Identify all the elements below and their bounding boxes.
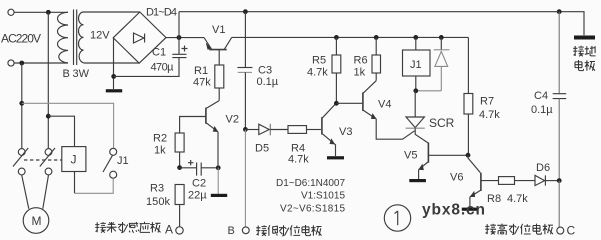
label 接低水位电极	[256, 225, 321, 236]
svg-text:V3: V3	[339, 126, 352, 138]
svg-text:ybx8.cn: ybx8.cn	[422, 202, 485, 219]
label 接来水感应极	[95, 222, 160, 233]
resistor R6	[372, 37, 381, 80]
wire node down to terminal C (gray)	[558, 181, 560, 228]
node N to J1 contact branch	[19, 101, 24, 106]
ground bar V6	[462, 208, 478, 211]
svg-text:4.7k: 4.7k	[307, 67, 328, 79]
resistor R5	[332, 37, 341, 103]
wire V5 base to node	[429, 154, 468, 156]
contactor coil J box	[62, 147, 86, 172]
label 接高水位电极	[485, 224, 553, 235]
transformer core	[74, 10, 77, 66]
svg-text:3W: 3W	[73, 68, 90, 80]
wire V2 base left	[180, 117, 206, 134]
ground bar V2	[211, 194, 227, 197]
wire node down to terminal B (gray)	[244, 129, 246, 227]
svg-text:4.7k: 4.7k	[479, 109, 500, 121]
svg-text:D1~D6:1N4007: D1~D6:1N4007	[276, 178, 345, 189]
svg-text:J: J	[71, 153, 77, 167]
transistor V4 (NPN)	[363, 81, 376, 119]
relay contact J1	[103, 148, 117, 178]
svg-text:22µ: 22µ	[188, 190, 207, 202]
svg-text:SCR: SCR	[429, 116, 455, 130]
ground bar under bridge	[106, 89, 122, 92]
flyback diode (gray)	[416, 50, 450, 91]
svg-text:150k: 150k	[146, 196, 171, 208]
wire C1 minus to ground node	[114, 58, 179, 77]
svg-text:1k: 1k	[354, 67, 366, 79]
svg-text:V6: V6	[450, 172, 463, 184]
bridge inner diode	[134, 33, 145, 43]
capacitor C2 electrolytic	[180, 160, 217, 176]
svg-text:0.1µ: 0.1µ	[257, 76, 279, 88]
svg-text:470µ: 470µ	[151, 62, 175, 74]
svg-text:R8: R8	[487, 193, 501, 205]
node rail J1 coil	[413, 35, 418, 40]
svg-text:J1: J1	[410, 59, 422, 71]
capacitor C1 lead	[178, 38, 180, 55]
wire rail to flyback diode	[440, 37, 442, 49]
wire secondary bottom to bridge	[84, 62, 140, 64]
transistor V1 (PNP S1015)	[204, 37, 232, 49]
wire V6 emitter to ground	[469, 197, 471, 208]
svg-text:4.7k: 4.7k	[507, 193, 528, 205]
switch contact left (in N line)	[13, 148, 28, 175]
wire N down to switch	[21, 63, 23, 148]
switch contact right (in L line)	[40, 148, 55, 175]
node rail R5	[334, 35, 339, 40]
ground bar V3	[327, 156, 344, 159]
svg-text:D1~D4: D1~D4	[146, 7, 177, 19]
node top bus to C3 branch	[243, 9, 248, 14]
node plus junction	[177, 35, 182, 40]
wire switch to motor right	[43, 175, 49, 209]
resistor R4	[288, 126, 321, 134]
node L junction	[46, 10, 51, 15]
svg-text:V1: V1	[212, 24, 225, 36]
node D6 C line	[557, 178, 562, 183]
svg-text:A: A	[165, 223, 173, 237]
svg-text:AC220V: AC220V	[1, 32, 41, 46]
wire bus down to C3	[244, 12, 246, 68]
svg-text:0.1µ: 0.1µ	[531, 104, 553, 116]
diode D5	[245, 124, 288, 136]
svg-text:D6: D6	[536, 162, 550, 174]
svg-text:V4: V4	[378, 99, 391, 111]
svg-text:R7: R7	[480, 96, 494, 108]
node L to relay coil branch	[46, 114, 51, 119]
svg-text:C4: C4	[534, 90, 548, 102]
svg-text:4.7k: 4.7k	[288, 154, 309, 166]
wire rail end down to R7	[467, 37, 469, 93]
node N junction	[19, 61, 24, 66]
capacitor C3	[237, 67, 252, 69]
svg-text:C3: C3	[258, 65, 272, 77]
node R2 R3 C2 junction	[177, 165, 182, 170]
svg-text:J1: J1	[117, 155, 129, 167]
motor M	[23, 208, 49, 234]
svg-text:B: B	[63, 68, 70, 80]
mechanical linkage dashes	[24, 159, 62, 161]
wire plus node up to top bus	[178, 12, 180, 38]
wire secondary top to bridge	[84, 11, 140, 13]
terminal C	[557, 227, 564, 234]
svg-text:12V: 12V	[90, 30, 110, 42]
svg-text:47k: 47k	[193, 77, 211, 89]
wire plus node to V1	[166, 37, 204, 39]
terminal A	[176, 227, 183, 234]
wire C3 down to node	[244, 72, 246, 129]
svg-text:V2: V2	[226, 114, 239, 126]
node C2 V2 emitter junction	[216, 165, 221, 170]
transistor V2 (NPN S1815)	[206, 101, 219, 132]
C1 plus sign	[182, 46, 188, 52]
relay coil J1 box	[403, 50, 431, 76]
node J1 coil SCR anode	[413, 88, 418, 93]
capacitor C1	[172, 54, 186, 57]
wire emitter node to ground (gray)	[217, 168, 219, 194]
wire C4 down to D6 node (gray)	[558, 99, 560, 181]
transformer secondary winding 12V	[79, 12, 84, 63]
svg-text:V5: V5	[404, 150, 417, 162]
node V5 base R7 V6 collector	[466, 153, 471, 158]
transformer B primary winding	[58, 12, 69, 63]
node rail flyback diode	[439, 35, 444, 40]
resistor R8	[499, 177, 536, 185]
capacitor C4	[553, 94, 567, 99]
terminal B	[242, 227, 249, 234]
wire switch to motor left	[22, 175, 29, 209]
wire AC neutral bottom	[14, 62, 68, 64]
node top bus C4 branch	[557, 9, 562, 14]
wire V1 collector rail	[232, 36, 469, 38]
svg-text:V2~V6:S1815: V2~V6:S1815	[280, 203, 345, 214]
transistor V5 (NPN mirrored)	[419, 143, 429, 170]
wire J1 contact bottom to coil (gray)	[75, 178, 114, 193]
svg-text:M: M	[32, 214, 42, 228]
tank ground electrode bar	[574, 36, 595, 40]
svg-text:D5: D5	[255, 143, 269, 155]
ground bar V5	[409, 179, 426, 182]
wire V4 emitter to SCR gate	[376, 119, 414, 139]
node D5 branch	[243, 127, 248, 132]
svg-text:R2: R2	[153, 133, 167, 145]
resistor R7	[464, 94, 473, 156]
circled number 1	[384, 205, 410, 231]
svg-text:V1:S1015: V1:S1015	[301, 191, 345, 202]
wire L branch to contactor coil	[48, 116, 74, 146]
svg-text:R6: R6	[354, 55, 368, 67]
wire AC live top	[14, 11, 68, 13]
resistor R1	[215, 50, 224, 101]
wire bridge minus down	[113, 38, 115, 89]
wire bus down to C4 (gray)	[558, 12, 560, 94]
diode D6	[535, 175, 559, 185]
wire V6 base to R8	[481, 180, 499, 182]
SCR thyristor	[406, 91, 429, 143]
svg-text:C: C	[567, 224, 576, 238]
wire L down to switch	[47, 12, 49, 148]
resistor R2	[175, 133, 184, 168]
resistor R3	[175, 185, 184, 227]
AC terminal top	[8, 9, 14, 15]
svg-text:R3: R3	[150, 183, 164, 195]
wire coil J bottom	[74, 172, 76, 194]
node rail R6	[374, 35, 379, 40]
wire V3 emitter to ground	[334, 144, 337, 156]
AC terminal bottom	[8, 60, 14, 66]
node ground junction	[111, 74, 116, 79]
wire node to V4 base	[336, 102, 362, 104]
wire J1 coil bottom	[415, 76, 417, 91]
transistor V3 (NPN)	[322, 103, 336, 144]
svg-text:1k: 1k	[154, 145, 166, 157]
svg-text:C1: C1	[152, 47, 166, 59]
wire top supply bus	[179, 12, 584, 36]
label 电极	[575, 60, 595, 71]
wire V5 emitter to ground	[418, 170, 420, 179]
svg-text:R5: R5	[312, 55, 326, 67]
wire N branch to J1 contact (gray)	[22, 103, 114, 148]
bridge rectifier D1~D4 diamond	[113, 12, 166, 63]
wire rail to J1 coil	[415, 37, 417, 50]
wire V2 emitter down	[217, 132, 219, 168]
svg-text:B: B	[228, 225, 235, 237]
svg-text:R1: R1	[194, 65, 208, 77]
node V3 collector V4 base	[334, 101, 339, 106]
transistor V6 (NPN mirrored)	[468, 155, 481, 197]
svg-text:C2: C2	[192, 178, 206, 190]
label 接地	[573, 46, 595, 57]
